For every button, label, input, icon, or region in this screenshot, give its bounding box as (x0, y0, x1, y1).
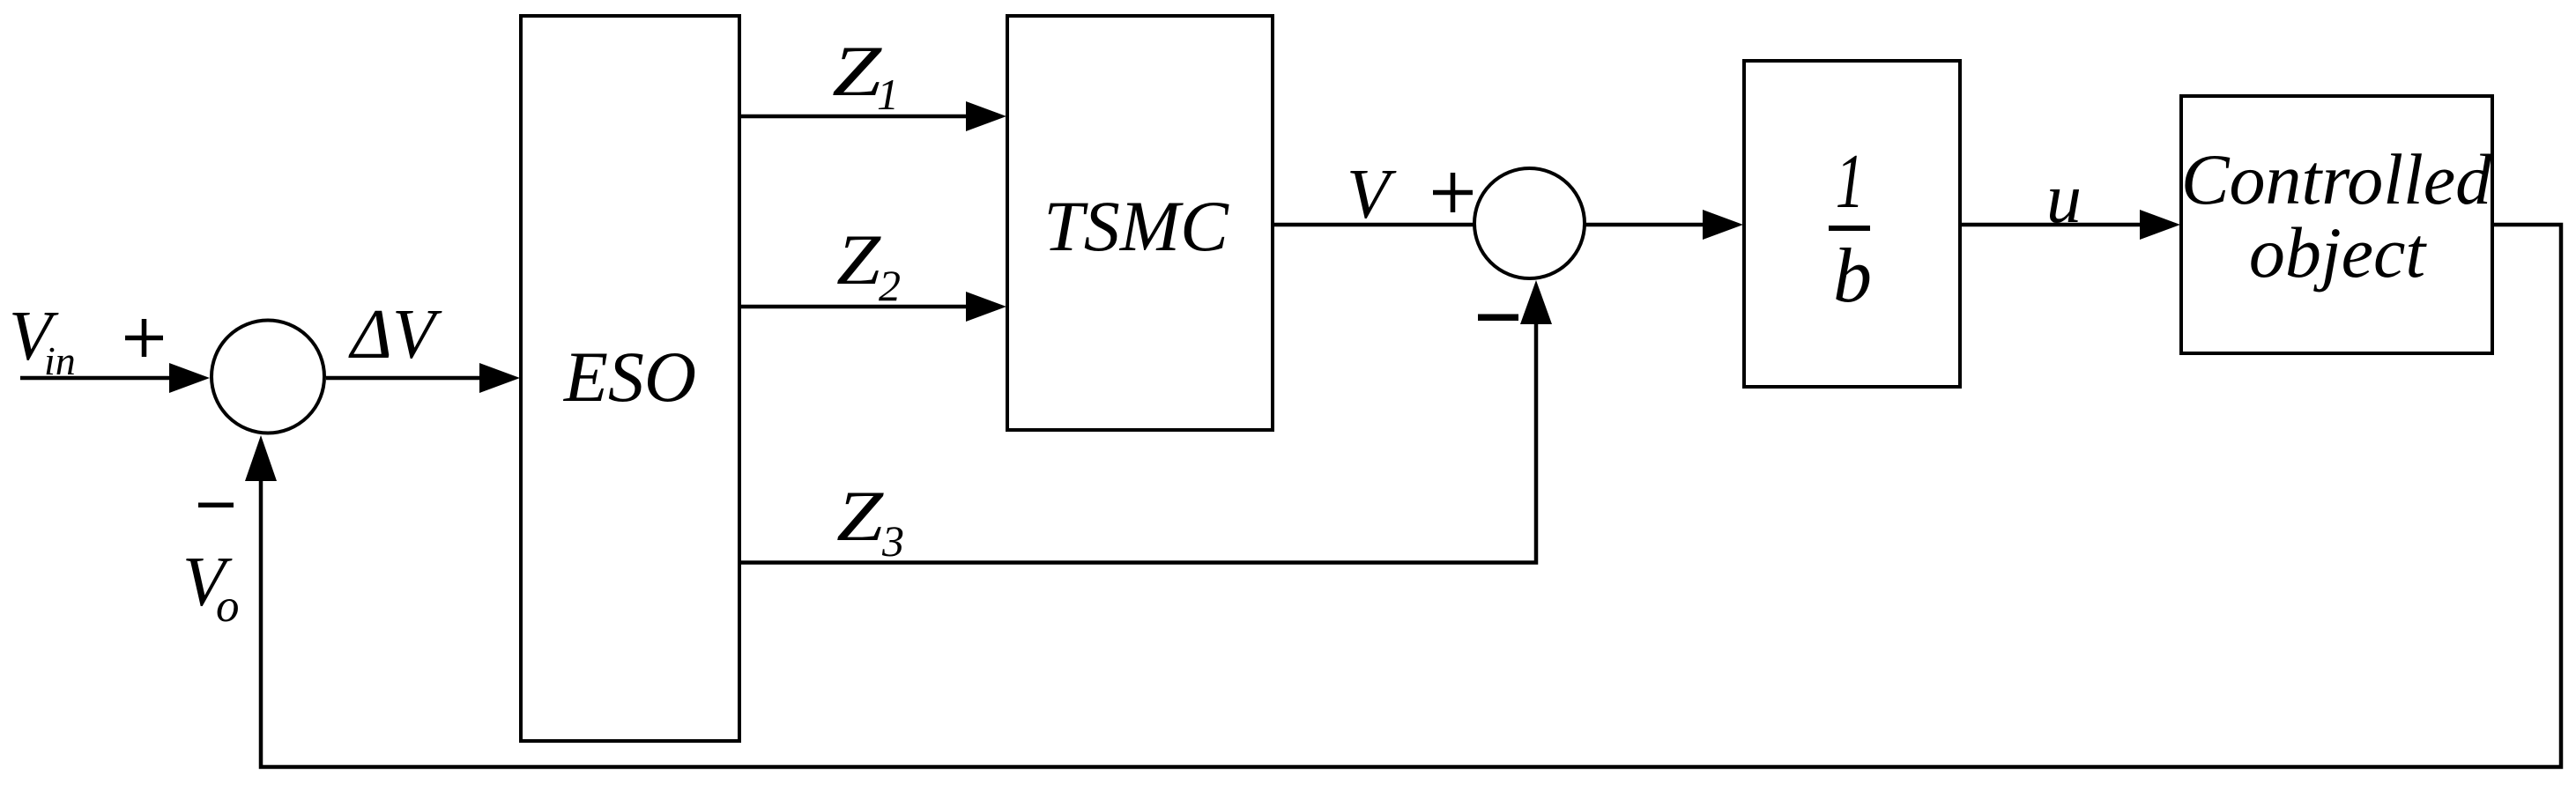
svg-text:object: object (2249, 212, 2428, 293)
svg-text:Z: Z (836, 476, 885, 556)
svg-text:Controlled: Controlled (2181, 139, 2492, 219)
svg-text:1: 1 (877, 70, 899, 119)
svg-text:ΔV: ΔV (348, 296, 442, 374)
svg-text:b: b (1833, 233, 1872, 319)
svg-text:1: 1 (1836, 138, 1865, 225)
svg-text:ESO: ESO (563, 337, 696, 417)
svg-text:2: 2 (879, 261, 901, 310)
svg-text:in: in (44, 338, 76, 383)
svg-text:3: 3 (881, 516, 904, 566)
svg-text:V: V (1347, 156, 1397, 233)
svg-text:u: u (2046, 160, 2082, 238)
svg-text:Z: Z (832, 31, 883, 111)
svg-text:TSMC: TSMC (1043, 186, 1229, 266)
svg-text:o: o (216, 581, 240, 632)
svg-text:Z: Z (836, 219, 882, 300)
